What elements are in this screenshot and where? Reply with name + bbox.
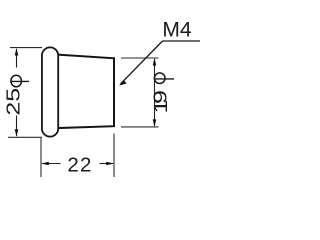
extension line right vertical (22 right) (113, 134, 115, 178)
leader line M4 (diagonal) (121, 41, 163, 84)
svg-text:25: 25 (3, 88, 24, 116)
arrowhead 22 right (106, 162, 114, 166)
dimension line 22 left segment (42, 163, 61, 165)
extension line bottom-left (25φ bottom) (8, 136, 42, 138)
knob body (tapered barrel) (50, 54, 114, 128)
svg-text:22: 22 (67, 154, 92, 177)
arrowhead 22 left (41, 162, 49, 166)
extension line top-left (25φ top) (10, 47, 42, 49)
arrowhead 19φ up (153, 58, 157, 66)
extension line left vertical (22 left) (40, 138, 42, 177)
leader line M4 (horizontal under text) (163, 40, 201, 42)
dimension line 25φ upper segment (16, 49, 18, 68)
arrowhead 19φ down (153, 119, 157, 127)
label 25 phi symbol circle (11, 75, 22, 87)
label 19 phi symbol circle (154, 73, 165, 84)
extension line bottom-right (19φ bottom) (121, 126, 159, 128)
dimension line 19φ (154, 59, 156, 126)
label 25 phi symbol stem (10, 80, 29, 82)
label 19 phi symbol stem (154, 78, 174, 80)
extension line top-right (19φ top) (121, 57, 159, 59)
arrowhead 25φ down (15, 129, 19, 137)
svg-text:1: 1 (150, 100, 171, 114)
dimension line 25φ lower segment (16, 116, 18, 137)
dimension line 22 right segment (100, 163, 114, 165)
knob front flange (pill) (42, 47, 58, 136)
arrowhead M4 leader (119, 80, 127, 85)
arrowhead 25φ up (15, 48, 19, 56)
svg-text:M4: M4 (162, 18, 191, 41)
